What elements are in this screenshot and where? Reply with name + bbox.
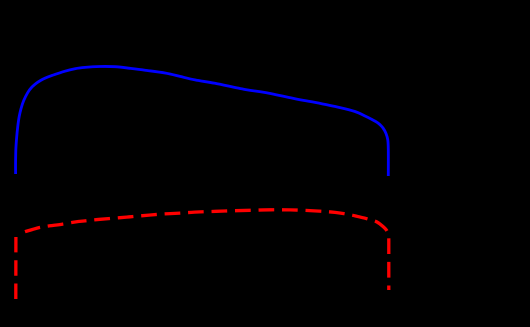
red dashed curve: plateau and right drop [25, 210, 389, 290]
red dashed curve: left vertical segment [14, 237, 17, 299]
blue solid gain curve [16, 66, 389, 176]
